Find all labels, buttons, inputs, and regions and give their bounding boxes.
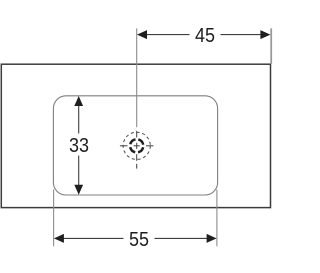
arrow up (74, 96, 83, 106)
dimension line (63, 237, 124, 239)
counter outline (1, 64, 270, 207)
svg-text:55: 55 (129, 229, 149, 251)
dimension 45 (top) (137, 25, 272, 127)
arrow left (54, 234, 64, 243)
extension line left (down to faucet hole) (136, 28, 138, 127)
dimension line (146, 34, 190, 36)
extension line left (53, 190, 55, 247)
dimension 55 (bottom) (54, 190, 217, 252)
basin outline (53, 96, 217, 195)
arrow left (137, 30, 147, 39)
arrow right (207, 234, 217, 243)
dimension line (78, 105, 80, 134)
horizontal centerline (120, 145, 128, 147)
faucet hole dashed circle (123, 132, 150, 159)
svg-text:45: 45 (195, 25, 215, 47)
faucet hole thick ring (130, 139, 143, 152)
arrow down (74, 185, 83, 195)
dimension 33 (left, vertical) (69, 96, 89, 195)
vertical centerline (136, 131, 138, 138)
extension line right (270, 28, 272, 63)
faucet hole centerlines (120, 131, 153, 169)
arrow right (260, 30, 270, 39)
extension line right (216, 190, 218, 247)
svg-text:33: 33 (69, 135, 89, 157)
